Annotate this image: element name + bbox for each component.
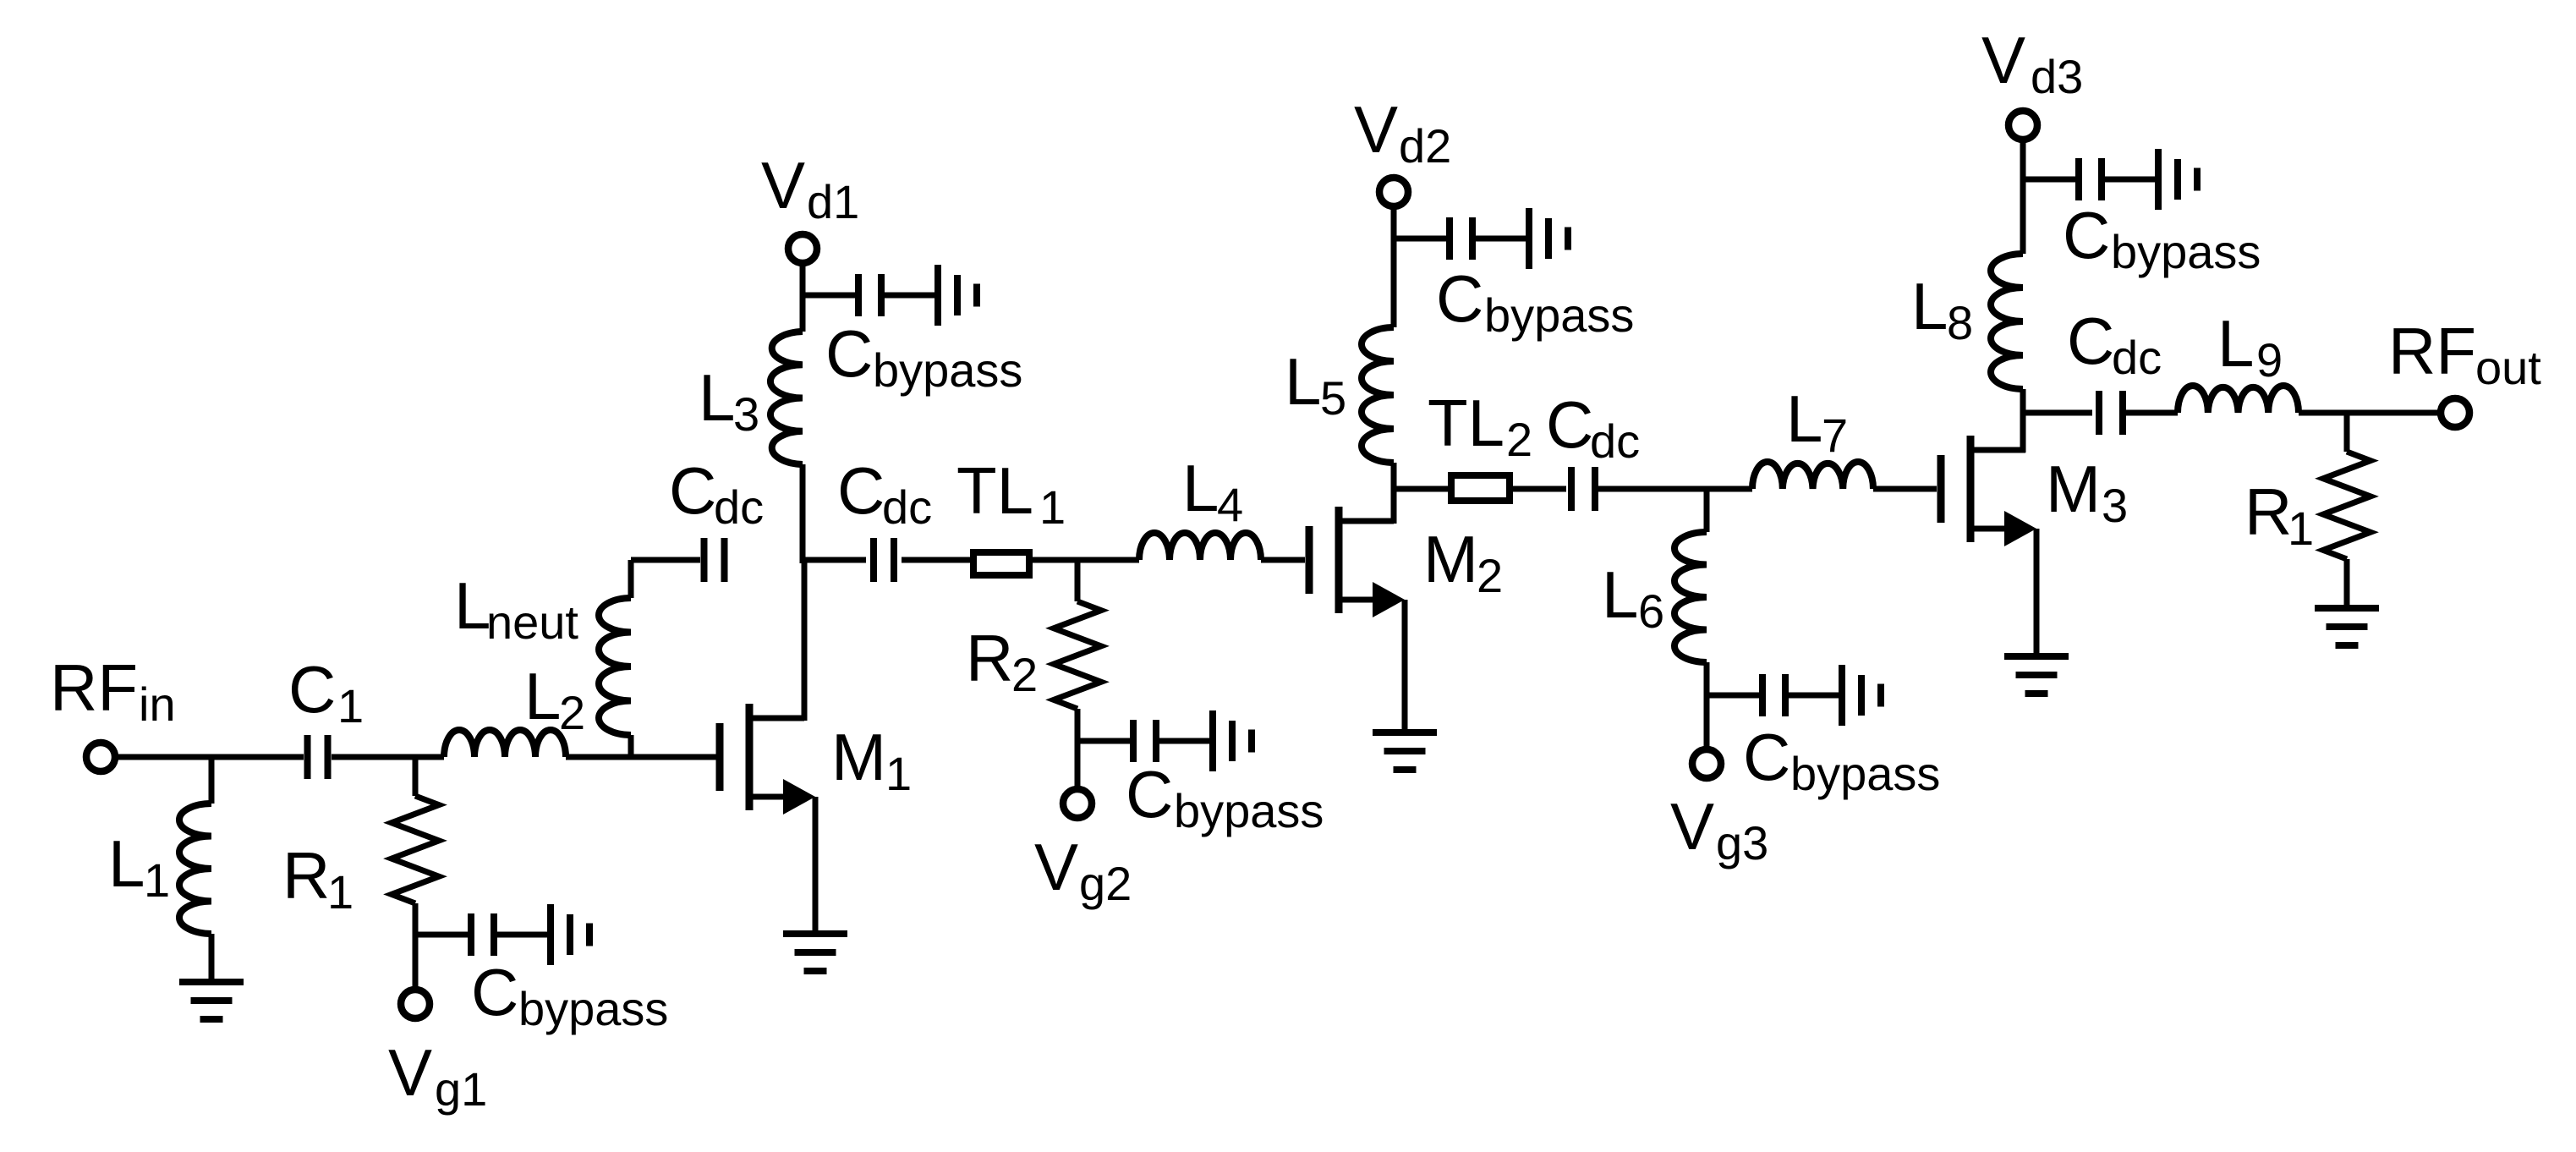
wire C1 to L2 <box>332 754 444 760</box>
wire TL2 to Cdc <box>1510 486 1566 492</box>
resistor R1 (output) <box>2323 452 2370 559</box>
svg-text:L: L <box>454 568 491 643</box>
wire L5 to drain node <box>1391 463 1397 491</box>
label RF_out <box>2388 314 2541 394</box>
label L2 <box>524 659 585 739</box>
inductor L2 <box>444 730 566 757</box>
label L3 <box>699 360 759 441</box>
transistor M1 <box>720 704 815 815</box>
label Lneut <box>454 568 578 649</box>
label L6 <box>1602 557 1664 638</box>
label Cbypass (Vg3) <box>1743 720 1940 800</box>
wire M1 drain <box>802 560 808 721</box>
wire R2 to Vg2 <box>1075 709 1081 787</box>
svg-text:d2: d2 <box>1399 119 1451 173</box>
port RF_out <box>2441 398 2469 427</box>
wire M2 drain <box>1391 489 1397 524</box>
capacitor Cbypass (Vd3) <box>2023 149 2197 210</box>
inductor L1 <box>179 804 211 934</box>
svg-text:dc: dc <box>882 480 932 534</box>
wire drain node right <box>803 557 866 563</box>
svg-text:bypass: bypass <box>1484 288 1634 342</box>
svg-text:2: 2 <box>1477 549 1503 602</box>
node R2 branch <box>1075 560 1081 601</box>
node L6 branch <box>1704 489 1710 532</box>
wire M3 source <box>2034 529 2040 653</box>
label Cdc (left) <box>669 453 764 534</box>
wire Lneut top corner <box>631 560 700 598</box>
port Vd3 <box>2009 111 2037 140</box>
svg-text:1: 1 <box>1039 480 1066 534</box>
svg-text:L: L <box>699 360 735 435</box>
label M2 <box>1423 522 1503 602</box>
wire TL1 to L4 <box>1029 557 1139 563</box>
transistor M2 <box>1309 507 1405 617</box>
svg-text:C: C <box>825 316 873 391</box>
svg-text:1: 1 <box>885 747 912 800</box>
wire M3 drain <box>2020 413 2026 453</box>
label Cdc (stage2) <box>1546 387 1640 468</box>
label Cbypass (Vg2) <box>1126 757 1324 837</box>
svg-text:C: C <box>1743 720 1790 794</box>
label R2 <box>966 621 1038 701</box>
svg-text:L: L <box>1911 269 1948 343</box>
svg-text:bypass: bypass <box>1790 747 1940 800</box>
wire L6 to Vg3 <box>1704 662 1710 747</box>
svg-text:g1: g1 <box>435 1062 487 1116</box>
capacitor Cdc (stage2) <box>1571 467 1595 511</box>
svg-text:L: L <box>1786 381 1822 456</box>
svg-text:R: R <box>966 621 1013 695</box>
label Vd3 <box>1981 23 2083 103</box>
ground (M2 source) <box>1373 732 1437 770</box>
wire L7 to M3 gate <box>1873 486 1937 492</box>
svg-text:9: 9 <box>2256 333 2283 387</box>
label Vg3 <box>1670 789 1768 869</box>
svg-text:1: 1 <box>144 853 170 907</box>
svg-text:L: L <box>524 659 561 733</box>
label Cdc (output) <box>2067 304 2162 384</box>
svg-text:M: M <box>1423 522 1478 596</box>
svg-text:L: L <box>1285 344 1321 419</box>
ground (M1 source) <box>783 934 847 971</box>
label Cbypass (Vd1) <box>825 316 1022 397</box>
svg-text:bypass: bypass <box>518 982 668 1035</box>
svg-text:C: C <box>669 453 716 528</box>
wire Vd2 to L5 <box>1391 207 1397 327</box>
svg-text:RF: RF <box>2388 314 2476 388</box>
label Vd1 <box>761 148 859 228</box>
label L5 <box>1285 344 1346 425</box>
svg-text:TL: TL <box>956 453 1033 528</box>
wire Vd1 to bypass junction <box>800 266 806 332</box>
port Vg3 <box>1692 749 1721 778</box>
inductor L9 <box>2178 386 2299 413</box>
node R1 branch <box>413 757 419 796</box>
wire L4 to M2 gate <box>1261 557 1305 563</box>
svg-text:in: in <box>139 677 176 731</box>
label TL1 <box>956 453 1066 534</box>
transistor M3 <box>1941 436 2036 546</box>
svg-text:L: L <box>108 826 145 901</box>
wire Cdc to L7 <box>1598 486 1752 492</box>
wire Cdc to L9 <box>2126 410 2178 416</box>
svg-text:neut: neut <box>486 595 578 649</box>
inductor L4 <box>1139 533 1261 560</box>
svg-text:2: 2 <box>1506 413 1532 466</box>
svg-text:g2: g2 <box>1079 857 1132 910</box>
svg-text:M: M <box>831 720 886 794</box>
label Vd2 <box>1354 92 1451 173</box>
svg-text:C: C <box>2067 304 2114 378</box>
transmission line TL2 <box>1451 475 1510 501</box>
label Cdc (right) <box>837 453 932 534</box>
capacitor Cbypass (Vd2) <box>1394 208 1568 269</box>
inductor L8 <box>1991 254 2023 389</box>
wire L9 to RF_out <box>2299 410 2438 416</box>
label R1 <box>282 838 354 919</box>
svg-text:C: C <box>2063 198 2110 272</box>
svg-text:V: V <box>388 1035 432 1110</box>
inductor L5 <box>1362 327 1394 463</box>
svg-text:4: 4 <box>1217 478 1243 531</box>
svg-text:3: 3 <box>2102 479 2128 532</box>
label L4 <box>1182 451 1243 531</box>
wire L8 to output node <box>2020 389 2026 415</box>
port Vg1 <box>401 990 430 1018</box>
svg-text:1: 1 <box>337 679 364 732</box>
resistor R2 <box>1054 601 1101 709</box>
svg-text:C: C <box>837 453 885 528</box>
transmission line TL1 <box>973 552 1029 575</box>
capacitor Cdc (output) <box>2099 391 2123 435</box>
inductor L6 <box>1674 532 1707 662</box>
wire R1 to ground <box>2344 559 2350 605</box>
label L7 <box>1786 381 1848 462</box>
svg-text:V: V <box>1981 23 2025 97</box>
inductor L7 <box>1752 462 1873 489</box>
svg-text:6: 6 <box>1638 584 1664 638</box>
wire L2 to M1 gate <box>566 754 716 760</box>
capacitor Cdc (right) <box>874 538 894 582</box>
svg-text:C: C <box>288 652 336 727</box>
wire L3 to drain node <box>800 464 806 563</box>
svg-text:V: V <box>761 148 805 222</box>
label L8 <box>1911 269 1973 349</box>
label L9 <box>2217 306 2283 387</box>
capacitor Cbypass (Vg2) <box>1077 710 1252 771</box>
svg-text:L: L <box>1602 557 1638 632</box>
svg-text:RF: RF <box>50 650 138 725</box>
svg-text:1: 1 <box>327 865 354 919</box>
node R1 output branch <box>2344 413 2350 452</box>
svg-text:L: L <box>2217 306 2254 381</box>
svg-text:2: 2 <box>1011 648 1038 701</box>
svg-text:7: 7 <box>1822 409 1848 462</box>
port Vg2 <box>1063 789 1092 818</box>
svg-text:C: C <box>1126 757 1173 831</box>
capacitor Cbypass (Vg3) <box>1707 665 1881 726</box>
resistor R1 <box>392 796 439 903</box>
svg-text:d1: d1 <box>807 175 859 228</box>
label M1 <box>831 720 912 800</box>
svg-text:5: 5 <box>1320 371 1346 425</box>
svg-text:R: R <box>2244 475 2292 549</box>
svg-text:bypass: bypass <box>1174 784 1324 837</box>
ground (R1 output) <box>2315 608 2379 645</box>
svg-text:d3: d3 <box>2031 50 2083 103</box>
inductor L3 <box>770 332 803 464</box>
wire R1 to Vg1 <box>413 903 419 987</box>
label TL2 <box>1428 386 1532 466</box>
inductor Lneut <box>599 598 631 735</box>
port Vd2 <box>1379 178 1408 206</box>
svg-text:bypass: bypass <box>873 343 1022 397</box>
port RF_in <box>86 743 304 771</box>
svg-text:bypass: bypass <box>2111 225 2261 278</box>
port Vd1 <box>788 234 817 263</box>
svg-text:3: 3 <box>733 387 759 441</box>
svg-text:M: M <box>2046 452 2101 526</box>
svg-text:dc: dc <box>2112 331 2162 384</box>
svg-text:R: R <box>282 838 330 913</box>
wire Lneut bottom <box>628 735 634 757</box>
svg-text:1: 1 <box>2288 502 2314 555</box>
wire L1 to ground <box>209 934 215 979</box>
label Cbypass (Vg1) <box>471 955 668 1035</box>
wire Vd3 to L8 <box>2020 142 2026 254</box>
capacitor Cbypass (Vd1) <box>803 265 977 326</box>
capacitor Cbypass (Vg1) <box>415 904 589 965</box>
label R1 (output) <box>2244 475 2314 555</box>
svg-text:C: C <box>471 955 518 1029</box>
svg-text:dc: dc <box>714 480 764 534</box>
svg-text:C: C <box>1546 387 1593 462</box>
svg-text:8: 8 <box>1947 296 1973 349</box>
label Cbypass (Vd2) <box>1436 261 1634 342</box>
svg-text:C: C <box>1436 261 1483 336</box>
capacitor C1 <box>308 735 328 779</box>
wire Cdc to TL1 <box>902 557 973 563</box>
wire output node <box>2023 410 2092 416</box>
label Vg2 <box>1034 830 1132 910</box>
svg-text:V: V <box>1034 830 1078 904</box>
svg-text:V: V <box>1354 92 1398 167</box>
label Vg1 <box>388 1035 487 1116</box>
svg-text:TL: TL <box>1428 386 1504 460</box>
svg-text:g3: g3 <box>1716 816 1768 869</box>
svg-text:2: 2 <box>559 686 585 739</box>
label RF_in <box>50 650 176 731</box>
node input junction / wire <box>209 757 215 804</box>
wire drain node to TL2 <box>1394 486 1451 492</box>
ground (L1) <box>179 982 244 1019</box>
label C1 <box>288 652 364 732</box>
svg-text:V: V <box>1670 789 1714 864</box>
ground (M3 source) <box>2004 656 2069 694</box>
label M3 <box>2046 452 2128 532</box>
svg-text:out: out <box>2475 341 2541 394</box>
wire M1 source <box>813 797 819 930</box>
svg-text:dc: dc <box>1590 414 1640 468</box>
wire M2 source <box>1402 600 1408 729</box>
label Cbypass (Vd3) <box>2063 198 2261 278</box>
label L1 <box>108 826 170 907</box>
capacitor Cdc (left) <box>704 538 725 582</box>
svg-text:L: L <box>1182 451 1219 525</box>
